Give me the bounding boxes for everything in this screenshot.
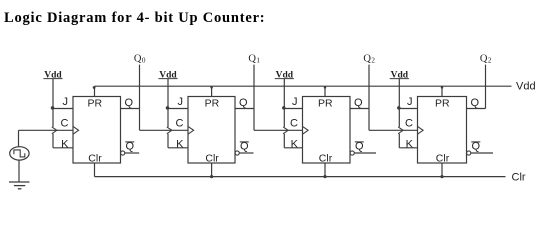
flip-flop U2 body bbox=[188, 97, 235, 164]
svg-text:C: C bbox=[176, 117, 184, 129]
svg-text:PR: PR bbox=[435, 98, 450, 110]
wire Vdd drop to J/K of U1 bbox=[53, 79, 73, 148]
svg-text:2: 2 bbox=[488, 57, 492, 65]
wire U1 Qbar stub bbox=[125, 152, 139, 154]
svg-text:C: C bbox=[290, 117, 298, 129]
U3 pin label Qbar bbox=[355, 140, 364, 152]
wire Vdd drop to J/K of U3 bbox=[284, 79, 302, 148]
svg-text:C: C bbox=[405, 117, 413, 129]
node label Q2 bbox=[480, 53, 492, 64]
U4 Qbar bubble bbox=[467, 151, 471, 155]
wire C input of U4 from Q of U3 bbox=[369, 129, 418, 131]
svg-text:K: K bbox=[61, 138, 69, 150]
junction Clr rail U3 bbox=[323, 175, 326, 178]
svg-text:Clr: Clr bbox=[319, 152, 333, 164]
power Vdd for U2 bbox=[158, 70, 177, 80]
wire U2 Q output bbox=[235, 108, 254, 110]
U2 Clr pin wire bbox=[211, 163, 213, 177]
wire Vdd drop to J/K of U2 bbox=[168, 79, 188, 148]
U3 PR pin wire bbox=[324, 86, 326, 96]
junction Vdd drop / J wire U2 bbox=[166, 106, 170, 110]
U4 PR pin wire bbox=[441, 86, 443, 96]
wire clock output to C of U1 bbox=[19, 130, 74, 147]
wire hop C over Vdd drop at U1 bbox=[52, 127, 57, 134]
wire clock to ground bbox=[18, 160, 20, 182]
U4 clock edge triangle bbox=[418, 126, 424, 134]
svg-text:J: J bbox=[63, 96, 69, 108]
U2 clock edge triangle bbox=[188, 126, 194, 134]
svg-text:0: 0 bbox=[142, 57, 146, 65]
svg-text:Vdd: Vdd bbox=[516, 81, 536, 93]
svg-text:Q: Q bbox=[354, 97, 363, 109]
svg-text:PR: PR bbox=[318, 98, 333, 110]
wire Vdd drop to J/K of U4 bbox=[399, 79, 417, 148]
svg-text:2: 2 bbox=[371, 57, 375, 65]
junction rail to U2 PR bbox=[210, 86, 213, 89]
U4 pin label Qbar bbox=[471, 140, 480, 152]
U3 Clr pin wire bbox=[324, 163, 326, 177]
wire U4 Qbar stub bbox=[471, 152, 493, 154]
junction rail to U4 PR bbox=[441, 86, 444, 89]
wire hop C over Vdd drop at U3 bbox=[283, 127, 288, 134]
svg-text:Q: Q bbox=[125, 97, 134, 109]
junction rail to U1 PR bbox=[93, 86, 96, 89]
U2 PR pin wire bbox=[211, 86, 213, 96]
svg-text:Q: Q bbox=[239, 97, 248, 109]
svg-text:PR: PR bbox=[88, 98, 103, 110]
wire hop C over Vdd drop at U2 bbox=[167, 127, 172, 134]
wire U3 Q output bbox=[350, 108, 369, 110]
svg-text:Q: Q bbox=[471, 97, 480, 109]
node label Q0 bbox=[134, 53, 146, 64]
svg-text:K: K bbox=[291, 138, 299, 150]
Vdd rail bbox=[95, 85, 512, 87]
svg-text:Q: Q bbox=[363, 53, 371, 64]
svg-text:C: C bbox=[61, 117, 69, 129]
svg-text:Clr: Clr bbox=[512, 172, 526, 184]
wire C input of U2 from Q of U1 bbox=[140, 129, 189, 131]
svg-text:J: J bbox=[407, 96, 413, 108]
svg-text:J: J bbox=[178, 96, 184, 108]
svg-text:Q: Q bbox=[248, 53, 256, 64]
svg-text:K: K bbox=[406, 138, 414, 150]
wire hop C over Vdd drop at U4 bbox=[398, 127, 403, 134]
wire node Q1 vertical bbox=[253, 65, 255, 131]
power Vdd for U3 bbox=[275, 70, 294, 80]
wire U2 Qbar stub bbox=[239, 152, 253, 154]
junction Clr rail U4 bbox=[440, 175, 443, 178]
svg-text:Clr: Clr bbox=[436, 152, 450, 164]
power Vdd for U1 bbox=[43, 70, 62, 80]
node label Q2 bbox=[363, 53, 375, 64]
wire U1 Q output bbox=[121, 108, 140, 110]
clock source V1 bbox=[10, 147, 29, 160]
wire C input of U3 from Q of U2 bbox=[254, 129, 303, 131]
svg-text:J: J bbox=[292, 96, 298, 108]
Clr rail bbox=[95, 176, 506, 178]
wire U3 Qbar stub bbox=[354, 152, 376, 154]
U1 clock edge triangle bbox=[73, 126, 79, 134]
svg-text:Q: Q bbox=[134, 53, 142, 64]
svg-text:Clr: Clr bbox=[88, 152, 102, 164]
power Vdd for U4 bbox=[390, 70, 409, 80]
junction rail to U3 PR bbox=[324, 86, 327, 89]
U3 Qbar bubble bbox=[350, 151, 354, 155]
flip-flop U4 body bbox=[418, 97, 467, 164]
junction Clr rail U2 bbox=[210, 175, 213, 178]
U1 Clr pin wire bbox=[94, 163, 96, 177]
wire node Q2b vertical bbox=[485, 65, 487, 109]
flip-flop U1 body bbox=[73, 97, 121, 164]
wire node Q0 vertical bbox=[139, 65, 141, 131]
ground bbox=[9, 182, 30, 189]
wire U4 Q output bbox=[467, 108, 486, 110]
flip-flop U3 body bbox=[303, 97, 351, 164]
junction Vdd drop / J wire U4 bbox=[397, 106, 401, 110]
node label Q1 bbox=[248, 53, 260, 64]
U2 Qbar bubble bbox=[235, 151, 239, 155]
title bbox=[4, 10, 265, 27]
U3 clock edge triangle bbox=[303, 126, 309, 134]
U4 Clr pin wire bbox=[441, 163, 443, 177]
junction Vdd drop / J wire U1 bbox=[51, 106, 55, 110]
wire node Q2 vertical bbox=[368, 65, 370, 131]
svg-text:K: K bbox=[176, 138, 184, 150]
U1 Qbar bubble bbox=[121, 151, 125, 155]
U1 pin label Qbar bbox=[125, 140, 134, 152]
svg-text:Q: Q bbox=[480, 53, 488, 64]
U1 PR pin wire bbox=[94, 86, 96, 96]
U2 pin label Qbar bbox=[240, 140, 249, 152]
svg-text:Clr: Clr bbox=[205, 152, 219, 164]
junction Vdd drop / J wire U3 bbox=[282, 106, 286, 110]
svg-text:PR: PR bbox=[205, 98, 220, 110]
svg-text:1: 1 bbox=[256, 57, 260, 65]
